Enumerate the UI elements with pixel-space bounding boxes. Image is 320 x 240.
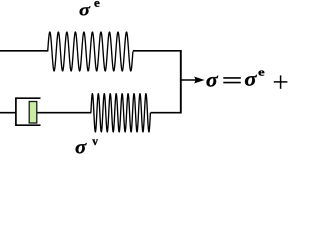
plus sign <box>274 81 288 83</box>
dashpot cylinder <box>16 98 41 125</box>
superscript v of sigma^v <box>92 139 98 145</box>
spring E2 (viscous branch, bottom) <box>91 94 150 132</box>
equals sign <box>223 77 241 79</box>
wire top-left <box>0 50 48 52</box>
wire bottom-right <box>150 112 181 114</box>
superscript e of sigma^e <box>94 1 99 7</box>
dashpot piston (green) <box>29 102 37 124</box>
equation sigma^e term <box>245 75 257 86</box>
label sigma of sigma^e <box>80 6 91 15</box>
label sigma of sigma^v <box>76 143 87 153</box>
wire top-right <box>133 50 182 52</box>
spring E1 (elastic branch, top) <box>48 32 133 71</box>
output arrow shaft <box>181 79 197 81</box>
output arrow head <box>194 77 205 84</box>
wire bottom-left <box>0 112 17 114</box>
piston rod <box>37 112 91 114</box>
equation superscript e <box>258 71 264 76</box>
equation sigma (total stress) <box>206 76 218 87</box>
right bus bar <box>180 50 182 114</box>
